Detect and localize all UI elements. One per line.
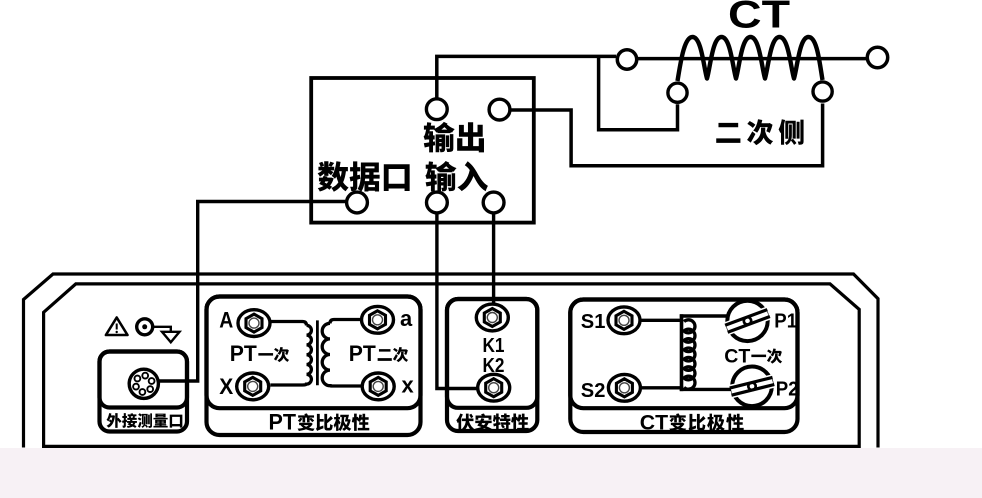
label data port xyxy=(318,161,410,191)
node input terminal 1 xyxy=(427,192,448,213)
svg-text:x: x xyxy=(402,372,415,397)
panel inner edge xyxy=(44,284,860,447)
node CT primary left terminal xyxy=(617,50,636,69)
wire xyxy=(599,56,678,129)
node output terminal 2 xyxy=(489,99,510,120)
connector socket xyxy=(129,369,158,398)
label input xyxy=(425,161,488,191)
label secondary side xyxy=(716,119,803,145)
wire xyxy=(680,314,730,317)
ground icon xyxy=(137,319,180,343)
label PT primary xyxy=(230,341,289,366)
PT ratio polarity box xyxy=(207,297,421,436)
PT primary winding xyxy=(270,325,311,385)
external measurement port box xyxy=(100,352,188,432)
wire xyxy=(638,57,866,61)
svg-text:PT: PT xyxy=(230,341,258,366)
node data port terminal xyxy=(347,192,368,213)
node CT secondary left tap xyxy=(668,83,687,102)
terminal A xyxy=(238,310,270,337)
CT ratio polarity box xyxy=(570,300,797,433)
svg-text:K2: K2 xyxy=(483,355,505,377)
wire xyxy=(641,386,683,389)
label volt-ampere characteristic xyxy=(456,413,528,431)
bottom band xyxy=(0,448,982,498)
svg-text:CT: CT xyxy=(640,411,668,435)
label CT primary xyxy=(724,345,782,367)
svg-text:CT: CT xyxy=(728,0,790,36)
knob P2 xyxy=(730,367,775,407)
node CT primary right terminal xyxy=(867,47,887,67)
node CT secondary right tap xyxy=(813,82,832,101)
CT winding bar xyxy=(680,314,684,391)
svg-text:A: A xyxy=(219,308,233,333)
panel outer edge xyxy=(24,274,879,448)
svg-text:PT: PT xyxy=(349,341,377,366)
wire xyxy=(270,322,306,326)
svg-text:PT: PT xyxy=(269,410,297,435)
inductor CT primary coil xyxy=(678,37,823,81)
node output terminal 1 xyxy=(426,99,447,120)
terminal X xyxy=(237,373,269,400)
node input terminal 2 xyxy=(483,192,504,213)
svg-text:P2: P2 xyxy=(776,379,799,401)
terminal K2 xyxy=(478,374,510,401)
wire xyxy=(680,388,734,391)
label CT ratio polarity xyxy=(640,411,744,435)
svg-text:a: a xyxy=(400,306,413,331)
wire xyxy=(437,214,477,389)
wire xyxy=(437,56,616,98)
terminal K1 xyxy=(476,304,508,331)
svg-text:X: X xyxy=(219,374,233,399)
terminal a xyxy=(362,306,394,333)
terminal S1 xyxy=(608,307,640,334)
label PT secondary xyxy=(349,341,408,366)
terminal S2 xyxy=(608,374,640,401)
PT core xyxy=(316,320,319,385)
label external measurement port xyxy=(107,413,183,428)
svg-text:P1: P1 xyxy=(774,311,797,333)
wire xyxy=(492,214,495,303)
volt-ampere box xyxy=(447,299,537,431)
terminal x xyxy=(362,373,394,400)
label output xyxy=(424,122,484,152)
tester box xyxy=(311,78,534,223)
svg-text:S1: S1 xyxy=(581,311,606,333)
CT winding xyxy=(684,320,695,389)
PT secondary winding xyxy=(322,323,361,386)
svg-text:K1: K1 xyxy=(483,335,505,357)
wire xyxy=(330,320,361,324)
svg-text:S2: S2 xyxy=(581,380,606,402)
warning icon xyxy=(106,318,128,336)
svg-text:CT: CT xyxy=(724,345,750,367)
label PT ratio polarity xyxy=(269,410,370,435)
knob P1 xyxy=(725,301,770,341)
wire xyxy=(641,319,683,322)
wire xyxy=(159,202,346,382)
wire xyxy=(511,104,823,166)
